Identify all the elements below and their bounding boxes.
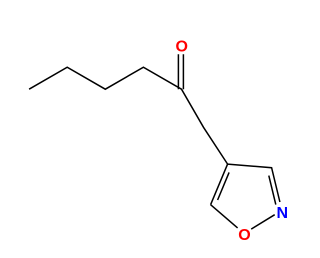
svg-text:N: N: [277, 205, 289, 222]
ring bonds C4-C3 and C3=N2 (main line): [228, 164, 280, 202]
ring bond C3=N2 inner parallel line: [269, 176, 276, 205]
ring bond N2-O1: [251, 215, 275, 229]
svg-text:O: O: [238, 227, 250, 244]
wire: alkyl chain C1-C2-C3-C4-C5(carbonyl)-C6-ring C4: [29, 67, 228, 164]
ring bond O1-C5: [211, 205, 238, 228]
ring bond C5=C4 main line: [211, 164, 228, 205]
ring bond C5=C4 inner parallel line: [218, 172, 230, 200]
svg-text:O: O: [175, 39, 187, 56]
ketone C=O double bond (two vertical lines): [178, 54, 183, 89]
